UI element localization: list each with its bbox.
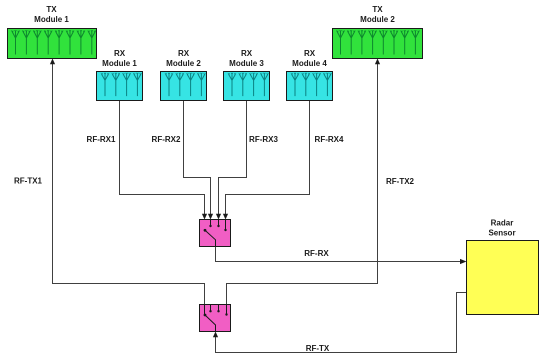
svg-text:RF-TX1: RF-TX1 <box>14 177 43 186</box>
svg-text:Module 3: Module 3 <box>229 59 264 68</box>
svg-text:RF-RX3: RF-RX3 <box>249 135 278 144</box>
svg-text:RF-RX: RF-RX <box>304 249 329 258</box>
svg-text:RX: RX <box>304 49 316 58</box>
svg-text:Module 2: Module 2 <box>166 59 201 68</box>
svg-text:Module 1: Module 1 <box>34 15 69 24</box>
svg-text:RX: RX <box>114 49 126 58</box>
svg-text:RF-RX1: RF-RX1 <box>87 135 116 144</box>
svg-text:TX: TX <box>372 5 383 14</box>
svg-text:RF-RX2: RF-RX2 <box>152 135 181 144</box>
svg-text:Sensor: Sensor <box>488 229 515 238</box>
svg-text:Module 1: Module 1 <box>102 59 137 68</box>
svg-text:RF-RX4: RF-RX4 <box>315 135 344 144</box>
svg-text:Radar: Radar <box>491 219 514 228</box>
svg-text:RF-TX2: RF-TX2 <box>386 177 415 186</box>
svg-text:RX: RX <box>241 49 253 58</box>
svg-text:Module 4: Module 4 <box>292 59 327 68</box>
svg-text:RF-TX: RF-TX <box>306 344 330 353</box>
svg-text:Module 2: Module 2 <box>360 15 395 24</box>
svg-text:TX: TX <box>46 5 57 14</box>
svg-text:RX: RX <box>178 49 190 58</box>
